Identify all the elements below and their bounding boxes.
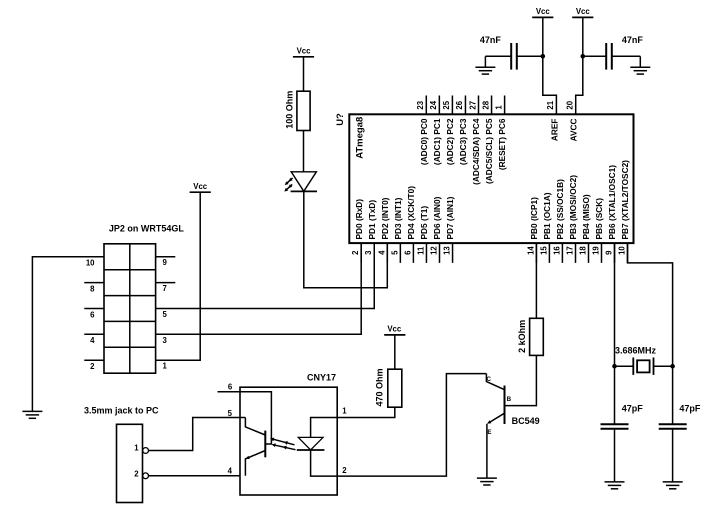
- svg-text:(ADC4/SDA) PC4: (ADC4/SDA) PC4: [471, 118, 481, 185]
- svg-text:(ADC0) PC0: (ADC0) PC0: [419, 118, 429, 165]
- pin 2 JP2: [84, 360, 104, 371]
- svg-text:PD4 (XCK/T0): PD4 (XCK/T0): [406, 186, 416, 240]
- LED D1: [284, 172, 317, 192]
- svg-text:Vcc: Vcc: [536, 7, 551, 16]
- pin 25 (ADC2) PC2: [442, 96, 455, 166]
- svg-text:11: 11: [416, 246, 425, 255]
- pin 10 PB7 (XTAL2/TOSC2): [618, 160, 631, 263]
- node AREF junction: [541, 54, 546, 59]
- pin 23 (ADC0) PC0: [416, 96, 429, 166]
- pin 9 JP2: [156, 257, 176, 268]
- wire jack pin 1 to CNY17 pin 5: [149, 418, 241, 451]
- svg-text:(RESET) PC6: (RESET) PC6: [497, 118, 507, 170]
- svg-text:5: 5: [228, 409, 233, 418]
- svg-text:6: 6: [228, 383, 233, 392]
- pin 18 PB4 (MISO): [579, 194, 592, 263]
- svg-text:C: C: [486, 376, 491, 383]
- pin 21 AREF: [546, 100, 559, 141]
- light arrows CNY17: [270, 438, 296, 450]
- resistor 100 Ohm: [285, 91, 311, 131]
- svg-text:CNY17: CNY17: [307, 372, 336, 382]
- svg-text:28: 28: [481, 100, 490, 109]
- pin 14 PB0 (ICP1): [526, 197, 539, 263]
- wire jack pin 2 to CNY17 pin 4: [149, 475, 241, 477]
- svg-text:2: 2: [134, 470, 139, 479]
- wire 100 Ohm to LED: [303, 131, 305, 172]
- pin 19 PB5 (SCK): [592, 198, 605, 263]
- ground (left 47nF): [475, 56, 495, 74]
- svg-text:4: 4: [377, 250, 386, 255]
- pin 8 JP2: [84, 283, 104, 294]
- wire AREF node to pin 21: [543, 56, 557, 114]
- svg-text:PB1 (OC1A): PB1 (OC1A): [542, 192, 552, 239]
- pin 28 (ADC5/SCL) PC5: [481, 96, 494, 184]
- svg-text:PB6 (XTAL1/OSC1): PB6 (XTAL1/OSC1): [607, 165, 617, 240]
- power symbol Vcc (right, to AVCC): [572, 7, 593, 17]
- svg-text:26: 26: [455, 100, 464, 109]
- svg-text:B: B: [507, 396, 512, 403]
- wire AVCC node to pin 20: [576, 56, 583, 114]
- wire PB0 to 2 kOhm: [535, 243, 537, 318]
- svg-text:17: 17: [566, 246, 575, 255]
- ground (right 47pF): [663, 482, 683, 489]
- svg-text:470 Ohm: 470 Ohm: [374, 368, 384, 406]
- svg-text:Vcc: Vcc: [576, 7, 591, 16]
- svg-text:6: 6: [403, 250, 412, 255]
- svg-text:19: 19: [592, 246, 601, 255]
- wire 470 Ohm to CNY17 pin 1: [337, 407, 395, 417]
- svg-text:6: 6: [90, 310, 95, 319]
- svg-text:100 Ohm: 100 Ohm: [285, 91, 295, 129]
- capacitor 47nF (right decoupling): [583, 35, 644, 69]
- svg-text:PD0 (RxD): PD0 (RxD): [354, 199, 364, 240]
- pin 4 PD2 (INT0): [377, 197, 390, 263]
- pin 17 PB3 (MOSI/OC2): [566, 175, 579, 263]
- connector JP2 body: [104, 244, 156, 373]
- wire CNY17 pin 5 inside: [240, 417, 245, 419]
- svg-text:4: 4: [228, 466, 233, 475]
- svg-text:9: 9: [605, 250, 614, 255]
- svg-text:PB5 (SCK): PB5 (SCK): [594, 198, 604, 240]
- ground (left 47pF): [605, 482, 625, 489]
- svg-text:2: 2: [351, 250, 360, 255]
- power symbol Vcc (left, to AREF): [532, 7, 553, 17]
- pin 2 PD0 (RxD): [351, 199, 364, 263]
- svg-text:14: 14: [526, 246, 535, 255]
- svg-text:Vcc: Vcc: [193, 182, 208, 191]
- wire PB6 XTAL1 to left 47pF: [614, 243, 616, 424]
- pin 20 AVCC: [566, 100, 579, 141]
- svg-text:18: 18: [579, 246, 588, 255]
- svg-text:25: 25: [442, 100, 451, 109]
- svg-text:1: 1: [134, 444, 139, 453]
- svg-text:PB2 (SS/OC1B): PB2 (SS/OC1B): [555, 179, 565, 240]
- transistor Q1 BC549: [486, 374, 539, 479]
- wire LED cathode to PD2 INT0: [304, 191, 388, 287]
- pin 1 (RESET) PC6: [494, 96, 507, 171]
- svg-text:(ADC3) PC3: (ADC3) PC3: [458, 118, 468, 165]
- capacitor 47nF (left decoupling): [480, 35, 543, 69]
- svg-text:3: 3: [364, 250, 373, 255]
- svg-text:47nF: 47nF: [622, 35, 644, 45]
- svg-text:Vcc: Vcc: [297, 47, 312, 56]
- svg-text:E: E: [487, 429, 491, 436]
- svg-text:1: 1: [342, 407, 347, 416]
- pin 2 jack: [134, 470, 148, 479]
- ground (JP2 pin 10): [22, 411, 42, 418]
- wire Vcc to AREF node: [542, 17, 544, 56]
- wire JP2 pin 10 to ground: [32, 257, 104, 412]
- resistor 2 kOhm: [517, 318, 543, 355]
- svg-text:2 kOhm: 2 kOhm: [517, 320, 527, 353]
- svg-text:10: 10: [86, 259, 95, 268]
- svg-text:(ADC2) PC2: (ADC2) PC2: [445, 118, 455, 165]
- svg-text:ATmega8: ATmega8: [355, 117, 366, 159]
- svg-text:AREF: AREF: [549, 119, 559, 142]
- svg-text:2: 2: [342, 466, 347, 475]
- svg-text:8: 8: [90, 285, 95, 294]
- svg-text:PD1 (TxD): PD1 (TxD): [367, 200, 377, 240]
- pin 5 PD3 (INT1): [390, 197, 403, 263]
- pin 6 PD4 (XCK/T0): [403, 186, 416, 263]
- svg-text:23: 23: [416, 100, 425, 109]
- diode CNY17 internal LED: [297, 418, 337, 477]
- phototransistor CNY17 internal: [240, 392, 271, 476]
- svg-text:27: 27: [468, 101, 477, 110]
- svg-text:13: 13: [443, 246, 452, 255]
- svg-text:PD6 (AIN0): PD6 (AIN0): [432, 196, 442, 239]
- pin 16 PB2 (SS/OC1B): [552, 179, 565, 263]
- svg-text:PB4 (MISO): PB4 (MISO): [581, 194, 591, 239]
- svg-text:15: 15: [539, 246, 548, 255]
- pin 9 PB6 (XTAL1/OSC1): [605, 165, 618, 263]
- connector X1 3.5mm jack body: [117, 424, 143, 502]
- svg-text:3.5mm jack to PC: 3.5mm jack to PC: [84, 406, 159, 416]
- svg-text:JP2 on WRT54GL: JP2 on WRT54GL: [109, 224, 185, 234]
- svg-text:PD2 (INT0): PD2 (INT0): [380, 197, 390, 239]
- svg-text:1: 1: [163, 362, 168, 371]
- svg-text:(ADC5/SCL) PC5: (ADC5/SCL) PC5: [484, 118, 494, 184]
- pin 10 JP2: [84, 257, 104, 268]
- svg-text:20: 20: [566, 100, 575, 109]
- IC U? ATmega8 body: [349, 114, 633, 243]
- svg-text:3: 3: [163, 336, 168, 345]
- svg-text:BC549: BC549: [512, 416, 540, 426]
- pin 11 PD5 (T1): [416, 206, 429, 263]
- svg-text:47pF: 47pF: [622, 404, 644, 414]
- svg-text:5: 5: [163, 310, 168, 319]
- svg-text:PB3 (MOSI/OC2): PB3 (MOSI/OC2): [568, 175, 578, 240]
- pin 6 CNY17: [218, 383, 241, 392]
- capacitor 47pF (right): [659, 404, 701, 482]
- capacitor 47pF (left): [601, 404, 644, 482]
- pin 15 PB1 (OC1A): [539, 192, 552, 263]
- svg-text:10: 10: [618, 246, 627, 255]
- pin 13 PD7 (AIN1): [443, 196, 456, 263]
- svg-text:5: 5: [390, 250, 399, 255]
- pin 27 (ADC4/SDA) PC4: [468, 96, 481, 185]
- svg-text:PB7 (XTAL2/TOSC2): PB7 (XTAL2/TOSC2): [620, 160, 630, 240]
- wire Vcc to 100 Ohm: [303, 57, 305, 91]
- svg-text:4: 4: [90, 336, 95, 345]
- wire JP2 pin 5 to PD1 TxD: [156, 243, 375, 308]
- pin 24 (ADC1) PC1: [429, 96, 442, 166]
- wire 2 kOhm to BC549 base: [505, 355, 537, 405]
- svg-text:21: 21: [546, 100, 555, 109]
- node XTAL2 junction: [670, 364, 675, 369]
- pin 6 JP2: [84, 309, 104, 320]
- svg-text:AVCC: AVCC: [569, 119, 579, 142]
- power symbol Vcc (470 Ohm): [384, 325, 405, 335]
- node XTAL1 junction: [612, 364, 617, 369]
- wire JP2 pin 1 to Vcc: [156, 192, 201, 360]
- wire JP2 pin 3 to PD0 RxD: [156, 243, 362, 334]
- pin 26 (ADC3) PC3: [455, 96, 468, 166]
- wire PB7 XTAL2 to right 47pF: [628, 243, 673, 424]
- svg-text:3.686MHz: 3.686MHz: [615, 345, 657, 355]
- svg-text:U?: U?: [335, 113, 346, 126]
- wire CNY17 pin 2 to BC549 collector: [337, 374, 486, 477]
- svg-text:9: 9: [163, 258, 168, 267]
- pin 4 JP2: [84, 334, 104, 345]
- svg-text:PD7 (AIN1): PD7 (AIN1): [445, 196, 455, 239]
- optocoupler CNY17 body: [240, 387, 337, 495]
- power symbol Vcc (JP2 pin 1): [190, 182, 211, 192]
- pin 12 PD6 (AIN0): [430, 196, 443, 263]
- pin 1 jack: [134, 444, 148, 454]
- ground (BC549 emitter): [477, 478, 497, 485]
- svg-text:PD5 (T1): PD5 (T1): [419, 206, 429, 240]
- crystal 3.686MHz: [615, 345, 673, 375]
- svg-text:47nF: 47nF: [480, 35, 502, 45]
- power symbol Vcc (LED branch): [293, 47, 314, 57]
- pin 3 PD1 (TxD): [364, 200, 377, 263]
- ground (right 47nF): [630, 56, 650, 74]
- wire Vcc to AVCC node: [582, 17, 584, 56]
- svg-text:PB0 (ICP1): PB0 (ICP1): [529, 197, 539, 240]
- svg-text:12: 12: [430, 246, 439, 255]
- svg-text:PD3 (INT1): PD3 (INT1): [393, 197, 403, 239]
- node AVCC junction: [581, 54, 586, 59]
- svg-text:16: 16: [552, 246, 561, 255]
- svg-text:2: 2: [90, 362, 95, 371]
- svg-text:47pF: 47pF: [679, 404, 701, 414]
- svg-text:1: 1: [494, 105, 503, 110]
- svg-text:Vcc: Vcc: [387, 325, 402, 334]
- resistor 470 Ohm: [374, 368, 401, 407]
- wire Vcc to 470 Ohm: [394, 335, 396, 369]
- pin 7 JP2: [156, 283, 176, 294]
- svg-text:7: 7: [163, 284, 167, 293]
- svg-text:(ADC1) PC1: (ADC1) PC1: [432, 118, 442, 165]
- svg-text:24: 24: [429, 100, 438, 109]
